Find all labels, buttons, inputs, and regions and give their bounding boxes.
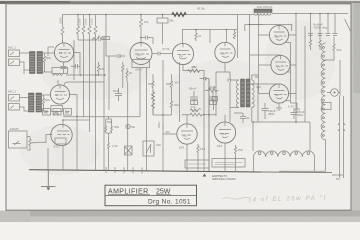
long vertical feed x=104 [103, 38, 105, 170]
T3 core bar right [246, 79, 250, 107]
resistor 100k [94, 15, 97, 41]
mic1 jack boxes [9, 50, 20, 57]
pencil note [222, 198, 250, 200]
V9 internals [274, 84, 287, 99]
volume pot resistor [29, 137, 31, 149]
wire T1 to V1 grid [43, 53, 55, 72]
wire [162, 125, 164, 130]
ground bus [29, 170, 262, 172]
winding bottom lead [279, 140, 326, 171]
long vertical feed x=74 [73, 40, 75, 80]
V8 internals [275, 55, 288, 70]
vertical pair x=109 [108, 56, 110, 110]
mic2 jack boxes [9, 95, 20, 102]
V11 internals [219, 122, 231, 138]
V10 grid wire [163, 133, 177, 135]
extra small labels [112, 125, 161, 148]
junction dot [208, 114, 210, 116]
feedback resistor 100k [209, 89, 219, 92]
T3 primary top wire [230, 75, 259, 80]
coupling cap [99, 37, 102, 41]
tube V3 [51, 124, 72, 145]
second HT rail [182, 29, 238, 31]
PSU bottom rail [253, 121, 310, 123]
coupling cap to V4 [106, 15, 125, 59]
second chain lower resistor [170, 90, 172, 115]
V4 screen lead down [104, 68, 140, 117]
bottom scan shadow band [0, 211, 360, 223]
V11 cathode resistor [234, 145, 236, 171]
V4 cathode resistor [122, 62, 124, 88]
tube V7 [269, 25, 288, 44]
mixer bus line 1 [66, 74, 106, 76]
V7 top feed [245, 14, 292, 32]
tube V6 [215, 42, 235, 62]
heater winding bottom (horizontal bumps) [254, 151, 315, 157]
mixer resistor vertical [97, 62, 99, 76]
grid resistor after T1 [43, 53, 45, 66]
feedback caps box 1 [190, 91, 198, 105]
switch box [143, 141, 154, 156]
decoupling resistor [92, 36, 100, 41]
long vertical x=127.7 [127, 82, 129, 170]
coupling cap V5 out [201, 77, 209, 81]
grid bus vertical [259, 25, 271, 94]
vertical x=216 [215, 72, 217, 116]
vertical to V6 top [225, 30, 227, 43]
HT bus (top rail) [63, 14, 255, 16]
resistor 220k [77, 15, 80, 41]
tube V4 [130, 43, 152, 65]
tube V2 [50, 85, 69, 104]
V6 bottom wires [216, 63, 230, 80]
V3 to ground [48, 145, 63, 170]
grid feeds from splitter [250, 25, 264, 85]
V1 internals [59, 43, 72, 57]
V6 internals [220, 42, 233, 57]
V8 top feed [263, 54, 281, 56]
long vertical feed x=89 [89, 40, 91, 132]
cathode bus [285, 43, 298, 104]
mains switch contacts [338, 123, 345, 131]
faint scan smudges [20, 20, 335, 175]
transformer T2 primary [29, 93, 35, 112]
wires mic2 to transformer [20, 98, 29, 112]
grid resistor 1M [126, 68, 128, 82]
title divider [105, 194, 197, 196]
vertical x=249 from bus [249, 15, 251, 80]
mixer resistors row boxes [43, 109, 51, 116]
voltmeter lamp [331, 89, 339, 97]
resistor 47k lower [190, 109, 201, 112]
V10 feed [187, 115, 225, 124]
tail resistor chain lower [152, 90, 155, 115]
switch detail [146, 144, 151, 153]
cathode grounds [276, 103, 282, 110]
resistor at 234 [233, 30, 235, 40]
resistor pair [105, 124, 113, 133]
V1 cathode box [52, 68, 68, 74]
bypass capacitor [61, 62, 67, 73]
choke L1 core [254, 9, 272, 13]
long vertical x=146.6 [146, 68, 148, 170]
V3 anode wire [63, 120, 90, 124]
tube type labels [55, 35, 281, 138]
HT secondary winding (vertical bumps) [321, 43, 325, 140]
tube V8 [271, 55, 290, 74]
wire V1 plate feed [61, 15, 64, 44]
left white margin [0, 4, 6, 212]
resistor 220k [88, 15, 91, 41]
junction bar [78, 39, 96, 41]
smoothing cap 1 [262, 103, 269, 119]
bottom terminal box 1 [185, 160, 209, 168]
screen feed box component [157, 18, 168, 23]
transformer T2 secondary [36, 93, 42, 112]
V10 bottom wire [187, 143, 225, 171]
tube V11 [214, 122, 235, 143]
dark resistor on HT bus [172, 13, 186, 17]
HT bus after choke to right edge [272, 13, 348, 15]
T3 bottom wires [230, 82, 252, 122]
V4 to V5 coupling [152, 52, 173, 56]
T3 lamination lines [241, 83, 250, 103]
V3 cathode box [55, 138, 66, 144]
tube V1 [54, 43, 73, 62]
grid resistor after T2 [42, 95, 44, 108]
cathode resistor zigzag [53, 113, 59, 115]
T3 core bar left [241, 79, 245, 107]
label box [102, 37, 110, 40]
V2 internals [55, 85, 68, 99]
long vertical feed x=96 [95, 40, 97, 170]
ground junction arrow [203, 174, 207, 177]
resistor below [108, 141, 110, 170]
chassis ground symbol [41, 170, 56, 186]
V5 tail resistor [192, 69, 202, 72]
bottom winding tap dots [258, 152, 261, 155]
V5 bottom wires [183, 65, 204, 78]
wire gram to V3 [38, 135, 53, 143]
V4 base box [132, 60, 150, 68]
top scan edge dark line [0, 1, 360, 3]
decoupling cap at 37 [141, 34, 153, 44]
cathode resistor zigzag [53, 74, 63, 76]
wire from box down [162, 15, 164, 45]
vertical x=340 [339, 60, 341, 96]
wire V2 anode up [57, 80, 59, 85]
pilot lamp [126, 124, 130, 128]
V10 cathode resistor [197, 144, 199, 171]
wire to mixer [74, 53, 80, 76]
vertical from bus to V5 [182, 30, 184, 45]
tail resistor second [170, 74, 172, 90]
heater terminal [294, 103, 300, 111]
divider resistor 2 [319, 33, 321, 50]
wire [182, 114, 216, 116]
V9 top feed [263, 83, 279, 85]
wire T2 to V2 grid [42, 95, 51, 111]
resistor 100k [82, 15, 85, 41]
right scan shadow band [352, 3, 360, 213]
T3 right winding bumps [252, 80, 254, 108]
transformer T1 primary [30, 52, 36, 74]
mixer pot [48, 47, 54, 56]
vertical x=237 from bus [237, 15, 239, 59]
vertical feed x=83.5 lower [83, 40, 85, 117]
vertical at 258 [257, 83, 259, 122]
winding tap dots [322, 46, 324, 48]
terminal box [322, 103, 331, 110]
mixer wire ch2 [63, 95, 104, 117]
choke L1 winding [254, 12, 271, 16]
mains leads [340, 96, 344, 178]
T1 lamination lines [30, 54, 42, 72]
tube V5 [172, 43, 193, 64]
tone cap right of V11 [234, 113, 246, 123]
right plate rail x=296 [295, 14, 297, 123]
pot wiper arrow [27, 137, 38, 151]
tube V10 [177, 124, 197, 144]
wires mic1 to transformer [20, 53, 30, 74]
screen resistor [195, 30, 197, 42]
pot inside [13, 141, 21, 145]
bottom terminal box 2 [212, 159, 245, 168]
long verticals center [203, 81, 205, 171]
T3 left winding bumps [237, 80, 239, 108]
coupling cap C1 [71, 64, 80, 69]
smoothing cap 2 [291, 109, 298, 120]
wire from bleeder [323, 56, 334, 60]
long vertical to ground x=77 [76, 116, 78, 170]
V2 cathode box [51, 106, 63, 112]
plate resistor 10k on x=141 [140, 15, 143, 35]
gram input box [9, 131, 28, 148]
long vertical x=163 [162, 60, 164, 171]
vertical x=210 [209, 30, 211, 44]
mixer bus line 2 [64, 82, 104, 86]
V10 internals [181, 124, 193, 139]
right rail x=305 [304, 26, 306, 122]
wires [106, 116, 112, 141]
heater wiring ticks [106, 167, 142, 173]
hum balance resistor [190, 113, 206, 116]
bleeder resistor right [333, 37, 335, 56]
divider resistor 1 [309, 33, 311, 50]
T2 lamination lines [29, 96, 41, 111]
tail junction bar [153, 114, 172, 116]
transformer T1 secondary [37, 52, 43, 74]
V7 internals [274, 25, 287, 40]
feedback caps box 2 [209, 91, 217, 105]
decoupling cap mid [115, 88, 122, 101]
cathode resistor V4 tail [152, 74, 154, 90]
winding end leads [254, 157, 315, 172]
PSU verticals [253, 122, 310, 151]
V1 anode wire [62, 40, 64, 43]
misc value labels [43, 56, 259, 152]
coupling cap into T3 [228, 79, 231, 83]
tube V9 [269, 84, 288, 103]
V7 plate to rail [289, 35, 296, 94]
tone pot [212, 97, 218, 102]
terminal box marks [188, 163, 242, 165]
lamp box [125, 146, 133, 155]
V5 internals [177, 43, 191, 59]
resistor 47k horizontal [188, 70, 200, 73]
title box [105, 185, 197, 206]
feedback line [179, 62, 181, 122]
cap plates [308, 34, 338, 36]
V4 internals [135, 43, 150, 60]
V3 internals [57, 124, 70, 135]
coupling cap [200, 77, 206, 81]
HT filter caps top right [311, 14, 336, 34]
fuse diagonal [345, 19, 351, 31]
